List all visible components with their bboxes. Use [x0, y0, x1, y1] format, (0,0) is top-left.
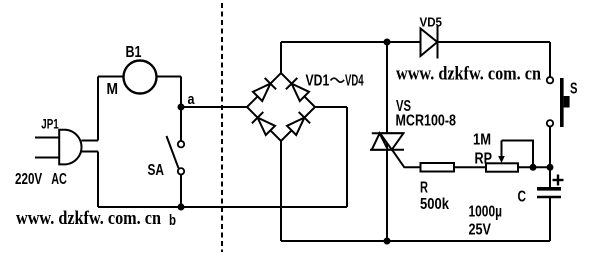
svg-text:500k: 500k	[420, 196, 449, 213]
wire RP out	[518, 166, 550, 168]
node b	[178, 204, 185, 211]
svg-text:www. dzkfw. com. cn: www. dzkfw. com. cn	[396, 64, 541, 85]
switch S	[547, 77, 553, 127]
svg-text:b: b	[169, 212, 176, 229]
thyristor VS	[372, 132, 404, 134]
wire top rail right	[438, 41, 551, 43]
dashed separator line	[221, 3, 223, 252]
node RP wiper junction	[530, 164, 537, 171]
node bottom rail junction	[384, 238, 391, 245]
svg-text:VD5: VD5	[420, 15, 443, 30]
wire capacitor to bottom rail	[549, 197, 551, 241]
svg-text:R: R	[420, 180, 428, 197]
wire bottom rail	[281, 240, 550, 242]
wire rail b	[98, 206, 347, 208]
wire plug top prong	[35, 137, 60, 139]
svg-text:a: a	[188, 91, 196, 108]
plug JP1	[59, 130, 81, 165]
wire SA feed	[180, 107, 182, 141]
switch SA	[178, 141, 184, 175]
wire rail a	[181, 106, 247, 108]
wire b to bridge	[315, 106, 347, 108]
svg-text:VD1: VD1	[306, 73, 330, 90]
diode VD3 bottom-left	[258, 118, 275, 135]
wire S lower	[549, 127, 551, 168]
potentiometer RP	[486, 163, 518, 171]
node a	[178, 104, 185, 111]
svg-text:220V: 220V	[15, 171, 42, 188]
wire to motor	[98, 76, 124, 78]
bridge rectifier VD1-VD4 diamond	[247, 73, 315, 141]
wire top rail left	[281, 41, 421, 43]
svg-text:RP: RP	[475, 151, 493, 168]
wire junction to capacitor	[549, 167, 551, 187]
diode VD5	[421, 29, 438, 57]
wire gate	[392, 150, 421, 168]
diode VD4 bottom-right	[287, 118, 304, 135]
wire plug bottom riser	[97, 152, 99, 208]
svg-text:VD4: VD4	[345, 73, 364, 90]
wiper arrow RP	[501, 141, 503, 158]
wire drop to node a	[180, 77, 182, 108]
wire plug bottom output	[82, 151, 99, 153]
svg-text:www. dzkfw. com. cn: www. dzkfw. com. cn	[16, 208, 161, 229]
svg-text:25V: 25V	[469, 222, 492, 239]
svg-text:S: S	[570, 81, 578, 98]
plus sign of capacitor	[553, 175, 564, 186]
wire right drop to S	[549, 42, 551, 77]
svg-text:AC: AC	[51, 171, 67, 188]
wire plug bottom prong	[35, 157, 60, 159]
node S branch junction	[547, 164, 554, 171]
svg-text:SA: SA	[148, 162, 165, 179]
wire R to RP	[454, 166, 486, 168]
svg-text:C: C	[518, 189, 527, 206]
wire wiper loop	[502, 141, 534, 168]
diode VD2 top-right	[292, 84, 309, 101]
svg-text:B1: B1	[126, 44, 142, 61]
motor B1	[124, 61, 157, 94]
wire bridge bottom drop	[280, 141, 282, 241]
capacitor C	[537, 187, 561, 191]
wire motor out	[157, 76, 182, 78]
wire bridge top riser	[280, 42, 282, 73]
node top rail junction	[384, 39, 391, 46]
wire plug top output	[82, 140, 99, 142]
svg-text:M: M	[107, 81, 119, 98]
svg-text:JP1: JP1	[41, 117, 59, 132]
diode VD1 top-left	[253, 84, 270, 101]
wire left riser	[97, 77, 99, 141]
svg-text:1000µ: 1000µ	[469, 204, 503, 221]
svg-text:MCR100-8: MCR100-8	[396, 113, 457, 130]
wire SA out	[180, 175, 182, 208]
svg-text:1M: 1M	[473, 132, 491, 149]
wire SCR branch	[386, 42, 388, 241]
resistor R	[421, 163, 455, 172]
wire b riser right	[346, 107, 348, 207]
